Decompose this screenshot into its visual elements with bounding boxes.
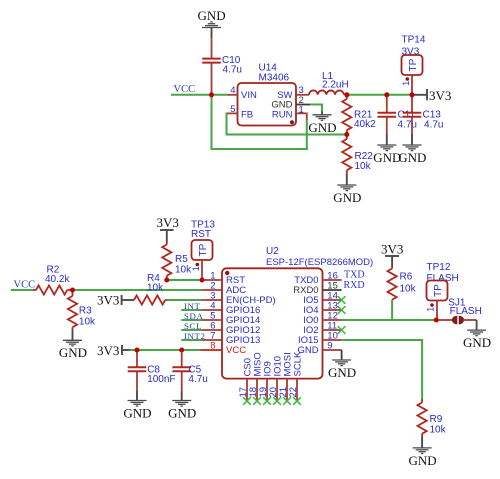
pin 18 MISO [256,379,258,401]
svg-text:M3406: M3406 [259,72,290,83]
resistor R3 [68,290,96,329]
wire INT line [181,309,202,311]
svg-text:R9: R9 [430,414,443,425]
svg-text:4.7u: 4.7u [223,64,242,75]
test point TP13 [191,219,216,280]
wire IO15 to R9 [342,340,423,399]
svg-text:SCLK: SCLK [293,351,304,376]
svg-text:1: 1 [426,307,436,312]
pin 10 IO15 [323,339,342,341]
power flag 3V3 (R4) [97,292,134,307]
wire INT2 line [181,339,202,341]
wire 3V3 to VCC pin [130,349,201,351]
svg-text:GND: GND [409,453,437,468]
svg-text:U2: U2 [266,246,279,257]
junction TP13/RST [200,278,205,283]
svg-text:SCL: SCL [184,321,202,331]
no-connect pin17 [243,397,251,405]
pin 6 GPIO12 [202,329,222,331]
test point TP12 [426,262,459,320]
inductor L1 [309,71,349,95]
junction VCC/C10 [209,92,214,97]
pin 2 ADC [202,289,222,291]
capacitor C8 [128,350,176,391]
svg-text:GND: GND [59,345,87,360]
svg-text:RXD: RXD [344,280,365,291]
svg-text:22: 22 [288,387,299,398]
power symbol 3V3 (above R6) [381,241,403,267]
pin 20 IO10 [276,379,278,401]
wire pin2 to ground [310,105,322,112]
svg-text:TP14: TP14 [402,35,426,46]
resistor R4 [134,273,167,305]
op-amp U14 regulator box [238,63,297,126]
svg-text:GND: GND [168,405,196,420]
svg-text:VCC: VCC [226,345,246,356]
svg-text:40k2: 40k2 [354,119,376,130]
svg-text:10k: 10k [355,161,372,172]
pin 4 VIN [227,94,237,96]
svg-text:R5: R5 [175,254,188,265]
wire RST line [167,279,202,281]
pin 19 IO9 [266,379,268,401]
svg-text:10k: 10k [175,265,192,276]
svg-text:2.2uH: 2.2uH [322,80,349,91]
wire 3V3 rail top [347,94,413,96]
wire SJ1 to ground [476,320,478,330]
pin 17 CS0 [246,379,248,401]
pin 3 SW [296,94,309,96]
pin 16 TXD0 [323,279,342,281]
svg-text:3V3: 3V3 [381,241,403,256]
ground GND (pin9) [332,360,351,366]
ground GND (C8) [128,391,147,406]
svg-text:RST: RST [191,229,211,240]
svg-text:RUN: RUN [272,110,293,121]
ground GND (R9) [413,436,432,453]
pin 4 GPIO16 [202,309,222,311]
pin 11 IO2 [323,329,342,331]
svg-text:4.7u: 4.7u [188,374,207,385]
wire pin9 to ground [341,350,343,360]
svg-text:4.7u: 4.7u [424,119,443,130]
svg-text:1: 1 [299,105,304,116]
wire EN line [167,299,202,301]
wire IO0 FLASH line [342,319,437,321]
no-connect pin19 [263,397,271,405]
svg-text:TP: TP [198,243,209,256]
pin 5 FB [227,112,237,114]
svg-text:100nF: 100nF [147,374,175,385]
svg-text:GND: GND [333,190,361,205]
svg-text:TP: TP [433,284,444,297]
pin 14 IO5 [323,299,342,301]
svg-text:GND: GND [328,365,356,380]
IC U2 ESP-12F box [222,246,373,379]
capacitor C11 [378,95,417,134]
svg-text:GND: GND [463,335,491,350]
junction rail/C13/TP14 [410,92,415,97]
resistor R9 [418,399,447,436]
svg-text:4.7u: 4.7u [398,119,417,130]
wire RUN tie to VCC [212,95,307,149]
test point TP14 [401,35,426,95]
junction C8 [135,348,140,353]
resistor R21 [342,95,376,135]
ground GND (top, above C10) [202,22,221,38]
svg-text:3V3: 3V3 [97,343,119,358]
resistor R5 [162,241,192,280]
wire SDA line [181,319,202,321]
ground GND (R3) [63,329,82,346]
svg-text:GND: GND [398,150,426,165]
wire FB feedback [227,113,347,134]
svg-text:FB: FB [241,110,253,121]
pin 15 RXD0 [323,289,342,291]
wire VCC to R2 [11,289,33,291]
svg-text:GND: GND [308,120,336,135]
svg-text:1: 1 [401,81,411,86]
svg-text:10k: 10k [400,284,417,295]
svg-text:10k: 10k [147,283,164,294]
pin 3 EN [202,299,222,301]
pin 13 IO4 [323,309,342,311]
svg-text:4: 4 [230,85,235,96]
svg-text:10k: 10k [430,425,447,436]
ground GND (R22) [337,174,356,191]
resistor R6 [388,267,417,300]
pin 8 VCC [201,349,223,351]
junction C5 [179,348,184,353]
junction TP12/SJ1 [434,318,439,323]
power flag 3V3 (top right) [413,88,451,103]
pin 2 GND [296,104,310,106]
svg-text:FLASH: FLASH [450,306,482,317]
svg-text:GND: GND [198,8,226,23]
pin 1 RST [202,279,222,281]
no-connect pin21 [283,397,291,405]
svg-text:R6: R6 [400,272,413,283]
svg-text:8: 8 [210,341,215,352]
ground GND (C5) [172,391,191,406]
svg-text:9: 9 [327,341,332,352]
wire VCC to VIN [171,94,227,96]
solder jumper SJ1 [439,297,482,324]
capacitor C5 [172,350,207,391]
ground GND (SJ1) [467,330,486,336]
svg-text:GND: GND [123,405,151,420]
svg-text:5: 5 [230,104,235,115]
wire R6 to FLASH line [391,300,393,320]
wire SCL line [181,329,202,331]
svg-text:SDA: SDA [184,311,203,321]
no-connect pin22 [293,397,301,405]
no-connect pin18 [253,397,261,405]
svg-text:ESP-12F(ESP8266MOD): ESP-12F(ESP8266MOD) [266,257,373,268]
no-connect pin14 [338,296,346,304]
ground GND (C13) [403,134,422,151]
resistor R22 [342,135,373,174]
pin 12 IO0 [323,319,342,321]
svg-text:TP: TP [408,58,419,71]
svg-text:VCC: VCC [174,84,196,95]
power flag 3V3 (VCC rail) [97,343,130,358]
svg-text:TP12: TP12 [427,262,451,273]
power symbol 3V3 (above R5) [157,215,179,241]
svg-text:40.2k: 40.2k [45,274,70,285]
svg-text:3V3: 3V3 [429,88,451,103]
junction rail/C11 [384,92,389,97]
ground GND (U14 pin2) [313,112,332,121]
wire ADC line [73,289,203,291]
svg-text:VCC: VCC [14,280,36,291]
pin 21 MOSI [286,379,288,401]
ground GND (C11) [377,134,396,151]
svg-text:GND: GND [373,150,401,165]
no-connect pin20 [273,397,281,405]
resistor R2 [33,265,73,295]
pin 9 GND [323,349,342,351]
svg-text:3V3: 3V3 [97,292,119,307]
capacitor C13 [403,95,444,134]
no-connect pin13 [338,306,346,314]
svg-text:INT: INT [184,301,200,311]
pin 7 GPIO13 [202,339,222,341]
junction R5/RST [164,278,169,283]
svg-text:1: 1 [191,266,201,271]
svg-text:3V3: 3V3 [157,215,179,230]
pin 22 SCLK [296,379,298,401]
junction R2/R3/ADC [70,288,75,293]
pin 1 RUN [296,113,307,119]
svg-text:R3: R3 [79,306,92,317]
junction L1/R21 [344,92,349,97]
no-connect pin11 [338,326,346,334]
junction R21/R22/FB [344,132,349,137]
capacitor C10 [202,38,242,95]
pin 5 GPIO14 [202,319,222,321]
svg-text:VIN: VIN [241,90,257,101]
svg-text:10k: 10k [79,317,96,328]
